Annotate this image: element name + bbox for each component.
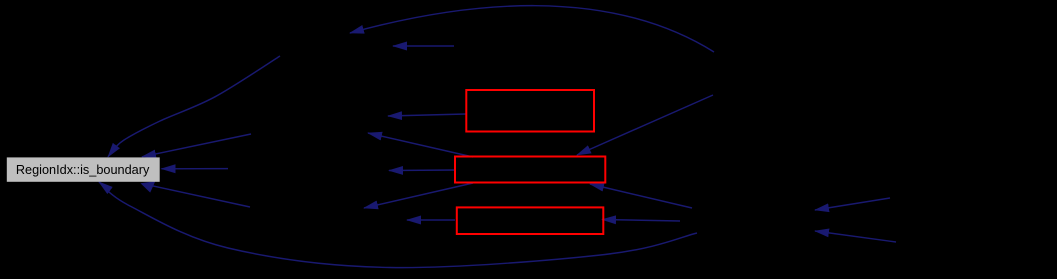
edge E5: node M4 to node N0: [162, 168, 229, 170]
red node B3: [457, 207, 604, 234]
edge E9: red node B1 to node M3: [388, 114, 466, 116]
edge E11: red node B2 to node M4: [389, 169, 455, 172]
edge E1: node R1 to node M1 (top arc): [350, 6, 714, 52]
edge E2: node M2 to node M1: [393, 45, 454, 47]
edge E14: node R3 to node R2: [815, 198, 890, 210]
red node B2: [455, 157, 605, 183]
edge E16: node R2b to red node B3: [602, 220, 680, 222]
edge E12: red node B2 to node M5: [364, 183, 473, 208]
edge A: node M1 to node N0: [108, 56, 280, 157]
arrowhead of edge C: [141, 181, 156, 192]
svg-text:RegionIdx::is_boundary: RegionIdx::is_boundary: [16, 162, 150, 177]
edge E13: red node B3 to node M5: [407, 219, 455, 221]
red node B1 (two-line, truncated label): [466, 90, 594, 132]
node N0: RegionIdx::is_boundary (current function, grey): [7, 157, 160, 181]
edge D: node R2 to node N0 (bottom arc): [99, 182, 697, 268]
edge E3: node R1 to red node B2: [577, 95, 713, 155]
edge B: node M3 to node N0: [142, 134, 251, 157]
edge E17: node R2 to red node B2: [590, 184, 692, 208]
edge C: node M5 to node N0: [150, 185, 250, 207]
edge E10: red node B2 to node M3: [368, 133, 473, 157]
edge E15: node R4 to node R2: [815, 231, 896, 242]
